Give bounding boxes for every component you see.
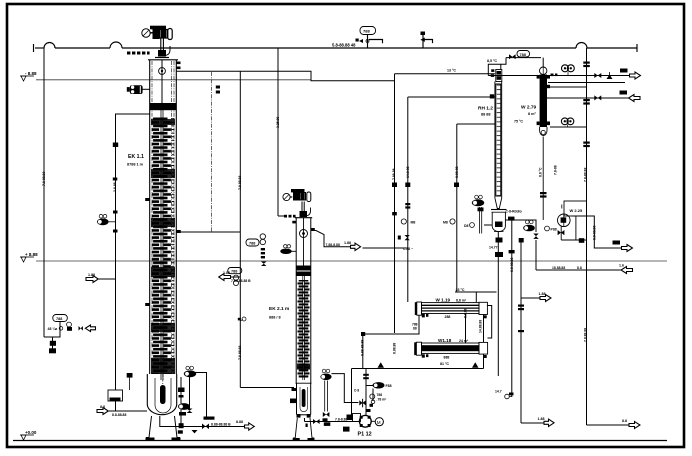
- wire: inflow line y98: [547, 97, 629, 99]
- pump oval FIR: [373, 382, 385, 388]
- valve on pump suction: [313, 419, 320, 424]
- column shell: [295, 218, 312, 383]
- wire: W1.19 to W1.18 series link: [483, 315, 485, 343]
- svg-text:75 °C: 75 °C: [514, 120, 523, 124]
- arrow out right y423: [544, 419, 554, 426]
- datum symbol mid left: [20, 252, 38, 262]
- wire: bottom exit from x586: [587, 424, 630, 426]
- wire: W2.25 bottom line y240: [561, 239, 586, 241]
- instrument circle right of pot tee: [545, 226, 550, 231]
- column EK2.1: [281, 190, 315, 441]
- svg-text:W1.18: W1.18: [438, 338, 452, 343]
- rounded instrument near W2.79 top: [517, 51, 530, 58]
- pump P1: [353, 409, 384, 427]
- flange dash row left of motor: [127, 52, 150, 55]
- column RH1.2: [490, 69, 507, 231]
- wire: x536 riser to y270: [535, 240, 537, 270]
- svg-text:M8: M8: [411, 221, 416, 225]
- wire: pot tee to x536: [506, 220, 537, 232]
- fitting on x115: [113, 143, 118, 148]
- flange dash row left: [284, 215, 296, 218]
- svg-text:7.8-88.88: 7.8-88.88: [238, 176, 242, 190]
- piping: [44, 48, 630, 427]
- pot tee fittings: [508, 217, 515, 221]
- twin gauge on W2.79 lower line: [561, 118, 568, 125]
- nozzle tick left wall: [292, 221, 296, 224]
- svg-text:W 2.79: W 2.79: [521, 105, 537, 111]
- svg-text:F88: F88: [386, 384, 392, 388]
- arrow out right y75.5 top product: [630, 72, 641, 79]
- fitting on col1 bottoms line: [179, 423, 184, 428]
- svg-text:788: 788: [377, 393, 383, 397]
- PIR rounded box: [53, 315, 68, 322]
- svg-text:788: 788: [520, 53, 526, 57]
- flange marks on jacket line: [551, 74, 554, 77]
- svg-text:C·8-Rddio: C·8-Rddio: [506, 209, 522, 213]
- central shaft: [160, 110, 162, 380]
- svg-text:P1 12: P1 12: [358, 432, 372, 438]
- svg-text:7.8.88.88: 7.8.88.88: [584, 328, 588, 342]
- wire: riser x240: [239, 71, 241, 388]
- arrow out right y425: [629, 422, 640, 429]
- flag on x240: [242, 317, 246, 321]
- svg-text:88 88: 88 88: [481, 113, 491, 117]
- guide chain line right of col1: [211, 72, 213, 232]
- dark support bands: [296, 266, 311, 271]
- twin gauge on top product line: [562, 65, 569, 72]
- wire: pump suction line y421.5: [305, 421, 360, 423]
- svg-text:EK 1.1: EK 1.1: [128, 154, 144, 160]
- wire: x278 stub to EK2.1 flange row: [278, 215, 284, 217]
- skirt: [146, 416, 181, 440]
- svg-text:8.88-88.88 B: 8.88-88.88 B: [211, 422, 231, 426]
- ladder rails: [170, 61, 172, 374]
- svg-text:M8: M8: [443, 221, 448, 225]
- sample flag on x512 line: [505, 394, 510, 399]
- wire: x240 to EK2.1 sump nozzle: [240, 387, 294, 389]
- drain symbol on top product line: [607, 74, 613, 79]
- exchanger W2.25: [558, 201, 587, 243]
- shaft: [302, 276, 304, 380]
- svg-text:M: M: [377, 420, 381, 425]
- svg-text:788: 788: [231, 270, 237, 274]
- flange pairs on x586 riser: [583, 62, 590, 64]
- svg-text:7.8-88: 7.8-88: [554, 165, 558, 175]
- pump circle instrument: [370, 394, 375, 399]
- wire: inflow arrow line to x115 at y279: [98, 278, 116, 280]
- wire: pot drain riser x498: [497, 232, 499, 293]
- shell: [495, 82, 502, 199]
- wire: riser x521: [520, 242, 522, 423]
- flange blobs on risers: [392, 183, 397, 188]
- pump cross valve: [359, 400, 366, 405]
- vessel W2.79: [537, 67, 550, 220]
- svg-text:RH 1.2: RH 1.2: [478, 106, 493, 112]
- svg-text:5.8-88.88 48: 5.8-88.88 48: [332, 43, 356, 48]
- wire: branch y298 arrow: [521, 297, 540, 299]
- wire: riser x457: [456, 124, 458, 292]
- tray zone: [150, 117, 177, 374]
- wire: jacket line y124: [457, 123, 495, 125]
- wire: x457 to y292 corner: [455, 291, 457, 293]
- instrument circle on x408 riser: [401, 219, 406, 224]
- agitator motor assembly: [283, 190, 311, 217]
- flange pair on x543 line: [540, 192, 547, 194]
- sump bottom corners: [297, 414, 301, 418]
- wire: left exit line y248 from x408: [363, 247, 408, 249]
- wire: box above y411: [108, 390, 123, 401]
- wire: riser x278 from header: [277, 48, 279, 216]
- wire: jacket line y97: [408, 96, 495, 98]
- arrow out right y247 EK2.1 side: [351, 243, 361, 250]
- svg-text:8.8: 8.8: [577, 266, 582, 270]
- nozzle ticks right wall top: [177, 62, 181, 65]
- svg-text:8.88: 8.88: [236, 420, 243, 424]
- svg-text:8 m²: 8 m²: [528, 112, 537, 116]
- wire: col1 sump outlet: [160, 416, 245, 427]
- reference line mid: [36, 260, 667, 262]
- wire: col1 bridle riser x181: [180, 377, 182, 424]
- wire: W2.25 outlet to exit arrow y248: [572, 216, 622, 248]
- wire: col1 bottom inflow arrow line y411: [109, 410, 148, 412]
- wire: W1.19 left cap drain: [363, 315, 419, 368]
- svg-text:7.88-88: 7.88-88: [392, 168, 396, 180]
- wire: EK2.1 right nozzle route to exit arrow: [311, 231, 351, 247]
- svg-text:13 °C: 13 °C: [447, 69, 456, 73]
- svg-text:1.88: 1.88: [344, 241, 351, 245]
- oval instrument pot bridle: [475, 195, 479, 199]
- bottom dome: [540, 127, 547, 136]
- sump: [296, 383, 312, 415]
- exchanger W1.18: [414, 342, 487, 358]
- wire: x351 drop to pump area: [351, 369, 353, 416]
- feed valve oval left: [281, 245, 296, 254]
- arrow out right y279 col1 feed: [86, 276, 98, 283]
- valve on inflow line y98: [594, 95, 601, 100]
- left guide rail: [151, 61, 153, 374]
- sump nozzles left: [290, 399, 296, 404]
- wire: W2.79 upper side line y87: [550, 86, 587, 88]
- wire: RH top to W2.79 top line: [506, 57, 541, 59]
- arrow in left y98: [629, 95, 641, 102]
- level pot black bar: [204, 417, 215, 420]
- svg-text:1.6: 1.6: [619, 263, 624, 267]
- svg-text:788: 788: [249, 242, 255, 246]
- wire: jacket line y72 to RH1.2: [395, 73, 495, 75]
- svg-text:7.88-8.88: 7.88-8.88: [326, 243, 340, 247]
- wire: col1 top-right nozzle to x240: [176, 71, 394, 80]
- wire: col1 bridle riser x189: [189, 377, 191, 410]
- svg-text:.78 m²: .78 m²: [377, 398, 388, 402]
- fitting black box at x351 base: [347, 415, 354, 421]
- svg-text:18.88.88: 18.88.88: [552, 266, 565, 270]
- arrow in left y270: [621, 267, 633, 274]
- instruments: [48, 51, 641, 434]
- svg-text:7.8-88.88: 7.8-88.88: [584, 168, 588, 182]
- datum symbol +0.00 bottom left: [20, 430, 37, 440]
- svg-text:7.8-88.88: 7.8-88.88: [238, 346, 242, 360]
- right wall nozzle mid: [176, 230, 181, 233]
- tick on pump suction: [306, 424, 308, 428]
- svg-text:1.88: 1.88: [538, 417, 545, 421]
- svg-text:8,8 m²: 8,8 m²: [456, 298, 467, 302]
- side flange ticks: [537, 75, 540, 79]
- arrow in right y411: [97, 408, 108, 415]
- top cap: [496, 70, 502, 82]
- svg-text:8.88.88: 8.88.88: [393, 343, 397, 354]
- wire: y292 link line: [455, 291, 497, 293]
- oval instrument col1 bridle lower: [178, 403, 190, 410]
- PIR drop fittings: [50, 341, 56, 346]
- datum symbol upper left: [20, 71, 37, 81]
- valve on x408 riser: [405, 235, 410, 240]
- arrow out left y277: [219, 274, 231, 281]
- svg-text:C.88 ~: C.88 ~: [403, 247, 413, 251]
- svg-text:1.88: 1.88: [539, 292, 546, 296]
- wire: shell side link x465: [465, 314, 467, 344]
- valve x204 on bottoms line: [202, 424, 209, 430]
- dark support band: [150, 103, 177, 110]
- reference line upper: [36, 79, 311, 81]
- wire: thin line from EK2.1 bridle to pump valve: [332, 374, 359, 403]
- svg-text:81 °C: 81 °C: [440, 362, 449, 366]
- wire: riser x115 from col1 upper nozzle: [116, 114, 150, 390]
- svg-text:W 2.25: W 2.25: [570, 208, 583, 213]
- left wall ticks: [145, 198, 150, 201]
- flange pair on x521 riser: [518, 305, 524, 307]
- feed valve oval left at y88: [127, 85, 150, 94]
- arrow out right y426.5 col1 bottoms: [245, 423, 255, 430]
- wire: W1.18 right cap drain: [483, 354, 485, 369]
- svg-text:P88: P88: [551, 228, 557, 232]
- svg-text:788: 788: [56, 317, 62, 321]
- svg-text:3.25.88: 3.25.88: [276, 117, 280, 128]
- arrow out left PIR cluster: [85, 325, 95, 332]
- wire: RH top elbow: [488, 64, 501, 75]
- agitator motor assembly top: [142, 26, 172, 57]
- wire: W1.19 right cap stub loop: [488, 306, 492, 339]
- wire: long riser x586: [586, 48, 588, 425]
- valve on top product line: [594, 73, 601, 78]
- EK2.1 instrument cluster boxes: [246, 239, 259, 246]
- top dome circle: [540, 67, 547, 74]
- wire: pot bridle link: [484, 224, 492, 226]
- svg-text:8.88-88.88: 8.88-88.88: [361, 340, 365, 356]
- svg-text:7.8-88.88: 7.8-88.88: [42, 172, 46, 186]
- bottom pot: [491, 210, 507, 232]
- column top section: [148, 60, 178, 374]
- svg-text:48 ¼a: 48 ¼a: [48, 327, 58, 331]
- black body: [540, 75, 547, 128]
- ground line: [13, 440, 667, 442]
- exchanger W1.19: [415, 302, 488, 318]
- svg-text:+0.00: +0.00: [25, 430, 37, 435]
- svg-text:23 °C: 23 °C: [456, 288, 465, 292]
- svg-text:888 / 8: 888 / 8: [269, 316, 281, 320]
- vent stub on header: [422, 34, 424, 48]
- drain triangle on y368 line: [378, 362, 385, 368]
- svg-text:8.8: 8.8: [622, 419, 627, 423]
- main header line: [34, 27, 638, 53]
- wire: W2.79 lower side line y127: [550, 126, 587, 128]
- svg-text:888: 888: [444, 355, 450, 359]
- dense internals bands: [151, 119, 175, 374]
- bottom cone: [495, 198, 502, 209]
- wire: outflow line y277 to left arrow: [231, 276, 241, 278]
- oval instrument EK2.1 bridle: [322, 369, 326, 373]
- svg-text:8.8-88.88: 8.8-88.88: [510, 258, 514, 272]
- svg-text:+ 8.88: + 8.88: [25, 252, 38, 257]
- svg-text:- 8.88: - 8.88: [25, 71, 37, 76]
- valve on x536 riser: [533, 234, 538, 239]
- svg-text:7.88-88.88 B: 7.88-88.88 B: [231, 279, 251, 283]
- svg-text:8.88-88: 8.88-88: [455, 166, 459, 178]
- wire: col1 level pot line x206: [194, 373, 207, 418]
- wire: left riser x44: [43, 48, 45, 337]
- svg-text:14.8-88: 14.8-88: [406, 166, 410, 178]
- svg-text:EK 2.1 m: EK 2.1 m: [269, 306, 289, 312]
- svg-text:8,5 °C: 8,5 °C: [487, 59, 497, 63]
- oval instrument near W2.25: [526, 220, 530, 224]
- svg-text:88: 88: [413, 326, 417, 330]
- wire: pot drain riser x512: [511, 221, 513, 398]
- svg-text:W 1.19: W 1.19: [436, 297, 451, 302]
- wire: riser x408: [407, 97, 409, 302]
- relief instrument on header: [360, 27, 376, 35]
- svg-text:3.8-88: 3.8-88: [113, 182, 117, 192]
- svg-text:14.7: 14.7: [495, 390, 502, 394]
- wire: pump oval stem: [366, 385, 373, 387]
- nozzle tick right wall: [311, 228, 315, 231]
- svg-text:14.77: 14.77: [489, 246, 498, 250]
- svg-text:D8: D8: [464, 224, 469, 228]
- oval instrument col1 mid x115: [99, 214, 103, 218]
- svg-text:C·8: C·8: [354, 389, 359, 393]
- svg-text:788: 788: [363, 29, 370, 34]
- EK2.1 bridle sight glass: [324, 381, 326, 412]
- wire: EK2.1 sump outlet elbow: [304, 418, 306, 422]
- wire: inflow line y270: [536, 269, 621, 271]
- svg-text:8.8-88.88: 8.8-88.88: [112, 413, 126, 417]
- PIR cluster circles and valve: [59, 327, 63, 331]
- oval instrument col1 bridle top: [186, 366, 190, 370]
- arrow out right y248: [622, 245, 633, 252]
- svg-text:8.8.88: 8.8.88: [464, 308, 468, 318]
- tray zone: [297, 280, 311, 378]
- svg-text:8.8 °C: 8.8 °C: [539, 167, 543, 177]
- wire: riser x394: [394, 74, 396, 333]
- skirt: [293, 418, 315, 441]
- wire: col1 mid-right nozzle to x240: [181, 231, 241, 233]
- wire: bottom header y368: [352, 368, 484, 370]
- pot bridle sight glass: [479, 207, 481, 234]
- svg-text:8788 1 m: 8788 1 m: [127, 163, 144, 167]
- svg-text:14.88.88: 14.88.88: [479, 320, 483, 333]
- wire: PIR drops: [52, 337, 54, 352]
- svg-text:288: 288: [445, 315, 451, 319]
- wire: bottom exit from x521: [521, 422, 545, 424]
- svg-text:7.8-8.88: 7.8-8.88: [335, 418, 348, 422]
- svg-text:1.88: 1.88: [88, 273, 95, 277]
- col1 bridle fittings: [178, 388, 185, 393]
- instrument circle at pot left: [470, 223, 475, 228]
- sump: [147, 374, 176, 415]
- wire: top product line y75.5: [488, 75, 629, 77]
- wire: PIR box link: [44, 322, 60, 338]
- svg-text:8.8: 8.8: [100, 405, 105, 409]
- instrument circle on x457 riser: [450, 219, 455, 224]
- dense bottom band: [297, 364, 310, 370]
- drain triangle at W1.18 outlet: [472, 362, 479, 368]
- wire: pump top riser x366: [365, 369, 367, 416]
- svg-text:8.8-88.88: 8.8-88.88: [593, 226, 597, 240]
- arrow out right y298: [540, 295, 551, 302]
- svg-text:24 m²: 24 m²: [459, 339, 469, 343]
